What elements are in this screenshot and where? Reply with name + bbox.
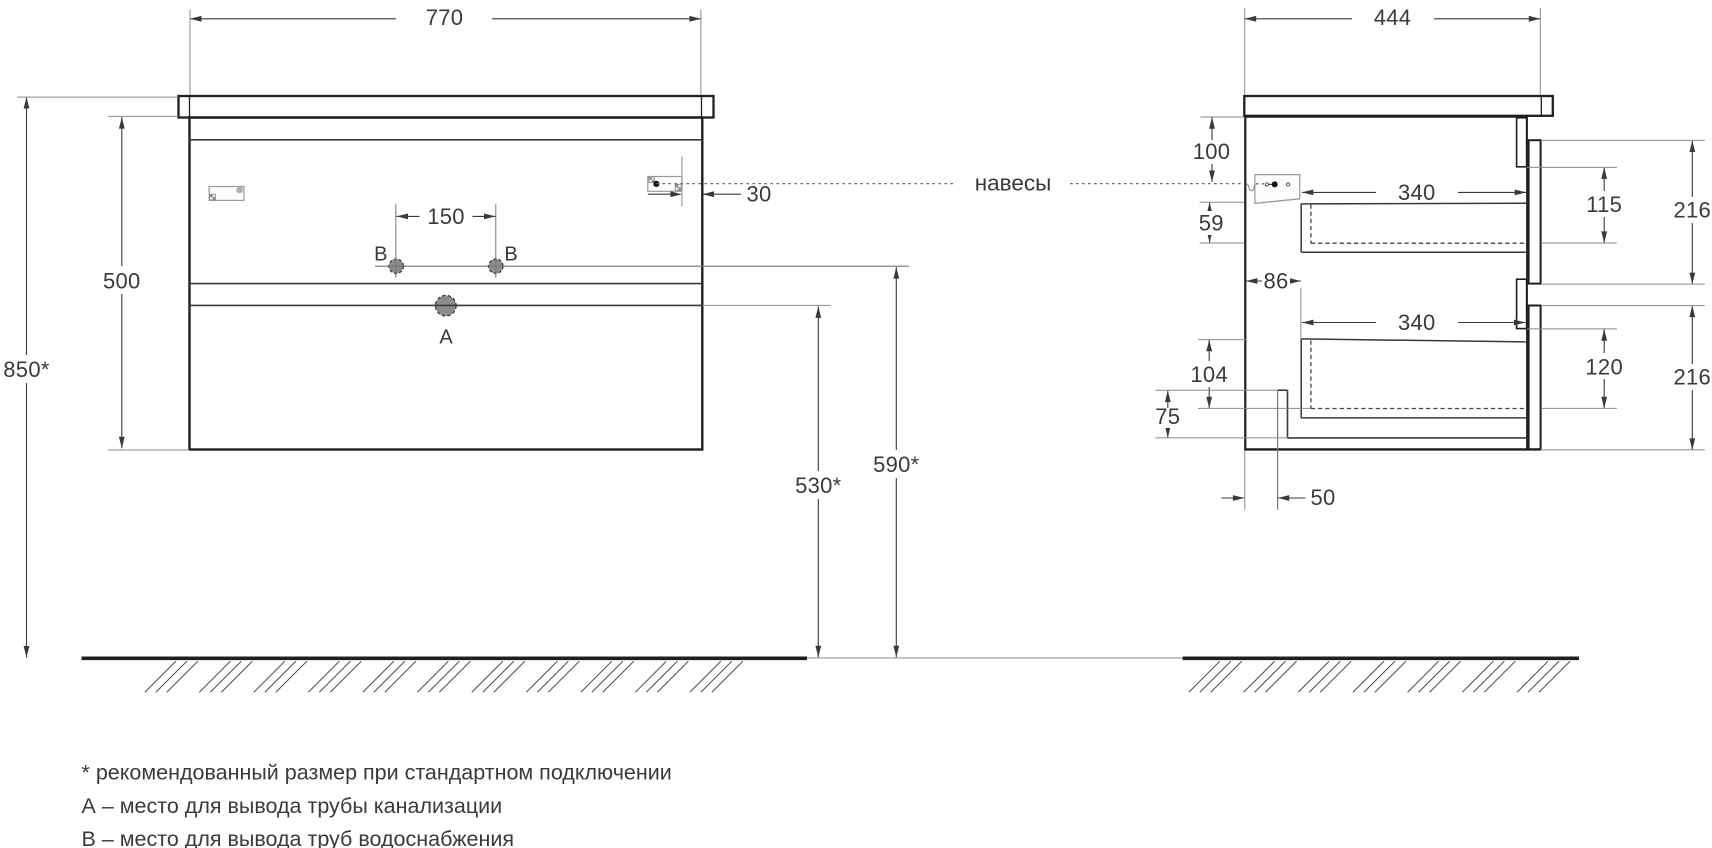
drawer box 1 hidden bottom xyxy=(1311,242,1527,244)
drawer front 2 top edge / node A line xyxy=(190,304,703,306)
drawer front 1 bottom edge xyxy=(190,283,703,285)
ground line left xyxy=(82,656,808,660)
countertop end caps front view xyxy=(189,96,191,118)
dimension 444 line xyxy=(1245,18,1352,20)
countertop side view xyxy=(1244,96,1553,116)
drawer front 1 side view xyxy=(1529,140,1541,283)
svg-text:770: 770 xyxy=(426,5,464,30)
utility lines over holes xyxy=(387,265,406,267)
hole A xyxy=(436,295,457,316)
drawer box 2 hidden bottom xyxy=(1311,408,1527,410)
carcass back panel side view xyxy=(1244,116,1246,451)
svg-text:216: 216 xyxy=(1673,365,1711,390)
svg-text:530*: 530* xyxy=(795,473,842,498)
svg-text:86: 86 xyxy=(1263,268,1288,293)
drawer box 1 side view xyxy=(1300,204,1302,253)
mid rail side view xyxy=(1517,279,1527,328)
svg-text:444: 444 xyxy=(1374,5,1412,30)
pipe notch side view xyxy=(1278,389,1288,391)
svg-text:30: 30 xyxy=(747,181,772,206)
drawer box 2 side view xyxy=(1300,339,1302,418)
svg-text:В – место для вывода труб водо: В – место для вывода труб водоснабжения xyxy=(82,827,515,848)
svg-text:А – место для вывода трубы кан: А – место для вывода трубы канализации xyxy=(82,794,503,818)
extension lines for 500 xyxy=(108,115,178,117)
svg-text:120: 120 xyxy=(1585,354,1623,379)
dimension 500 xyxy=(121,117,123,448)
extension lines for 75 xyxy=(1155,389,1277,391)
top rail side view xyxy=(1517,118,1527,167)
svg-text:100: 100 xyxy=(1193,139,1231,164)
svg-text:B: B xyxy=(504,244,517,266)
ground line right xyxy=(1183,656,1579,660)
dimension 530* xyxy=(817,306,819,657)
dimension 340 lower xyxy=(1302,322,1376,324)
dimension 30 xyxy=(648,193,678,195)
extension line for 86 xyxy=(1300,288,1302,340)
carcass front edge side view xyxy=(1526,117,1528,451)
svg-text:навесы: навесы xyxy=(975,170,1052,195)
ground line middle thin xyxy=(807,657,1183,659)
svg-text:216: 216 xyxy=(1673,198,1711,223)
extension line for 100 xyxy=(1201,116,1245,118)
svg-text:104: 104 xyxy=(1190,362,1228,387)
dotted line into bracket xyxy=(1256,183,1264,185)
dimension 340 upper xyxy=(1302,191,1376,193)
ground hatching left xyxy=(145,661,176,692)
bracket pins side view xyxy=(1265,183,1268,186)
svg-text:340: 340 xyxy=(1398,310,1436,335)
dimension 104 xyxy=(1208,340,1210,408)
water supply line through B holes xyxy=(375,265,909,267)
carcass inner bottom side view xyxy=(1288,437,1528,439)
bracket extension line (front view) xyxy=(681,157,683,207)
dimension 120 xyxy=(1603,329,1605,408)
svg-text:340: 340 xyxy=(1398,180,1436,205)
dotted hangers line xyxy=(656,183,954,185)
ground hatching right xyxy=(1189,661,1220,692)
dimension 86 xyxy=(1246,280,1301,282)
extension lines for 216 lower xyxy=(1541,305,1705,307)
svg-text:75: 75 xyxy=(1155,404,1180,429)
extension lines for 770 xyxy=(189,10,191,95)
carcass bottom panel side view xyxy=(1244,448,1540,450)
extension lines for 216 upper xyxy=(1541,139,1705,141)
dimension 216 upper xyxy=(1691,141,1693,285)
hole B left xyxy=(389,259,403,273)
svg-text:A: A xyxy=(439,326,453,348)
carcass top panel side view xyxy=(1244,116,1528,118)
svg-text:590*: 590* xyxy=(873,452,920,477)
extension lines for 115 xyxy=(1527,166,1617,168)
svg-text:150: 150 xyxy=(427,204,465,229)
dimension 50 xyxy=(1222,497,1245,499)
dimension 150 xyxy=(397,215,420,217)
hanging bracket right (front view) xyxy=(648,177,682,192)
extension line for 50 xyxy=(1244,451,1246,510)
dimension 115 xyxy=(1603,167,1605,243)
hanging bracket left (front view) xyxy=(209,187,244,201)
hanging bracket side view xyxy=(1255,175,1300,204)
dimension 590* xyxy=(895,267,897,657)
cabinet carcass front view xyxy=(190,118,703,450)
svg-text:500: 500 xyxy=(103,268,141,293)
dimension 75 xyxy=(1167,391,1169,438)
svg-text:59: 59 xyxy=(1199,210,1224,235)
svg-text:B: B xyxy=(374,244,387,266)
dimension 59 xyxy=(1209,202,1211,243)
dimension 850* xyxy=(26,97,28,658)
svg-text:115: 115 xyxy=(1586,192,1622,217)
label навесы xyxy=(962,170,1064,196)
drawer front 1 top edge xyxy=(190,139,703,141)
dimension 770 line xyxy=(190,18,396,20)
svg-text:50: 50 xyxy=(1311,485,1336,510)
extension lines for 150 xyxy=(395,204,397,278)
extension lines for 59 xyxy=(1200,201,1244,203)
drawer front 2 side view xyxy=(1529,306,1541,450)
svg-text:850*: 850* xyxy=(3,357,50,382)
hole B right xyxy=(489,259,503,273)
extension lines for 120 xyxy=(1527,328,1617,330)
extension line top 850* xyxy=(17,96,178,98)
extension lines for 444 xyxy=(1244,8,1246,95)
countertop end cap side view xyxy=(1540,96,1542,116)
dimension 216 lower xyxy=(1691,306,1693,450)
svg-text:* рекомендованный размер при с: * рекомендованный размер при стандартном… xyxy=(82,761,672,785)
countertop front view xyxy=(179,96,714,118)
extension lines for 104 xyxy=(1198,339,1246,341)
dimension 100 xyxy=(1211,117,1213,140)
